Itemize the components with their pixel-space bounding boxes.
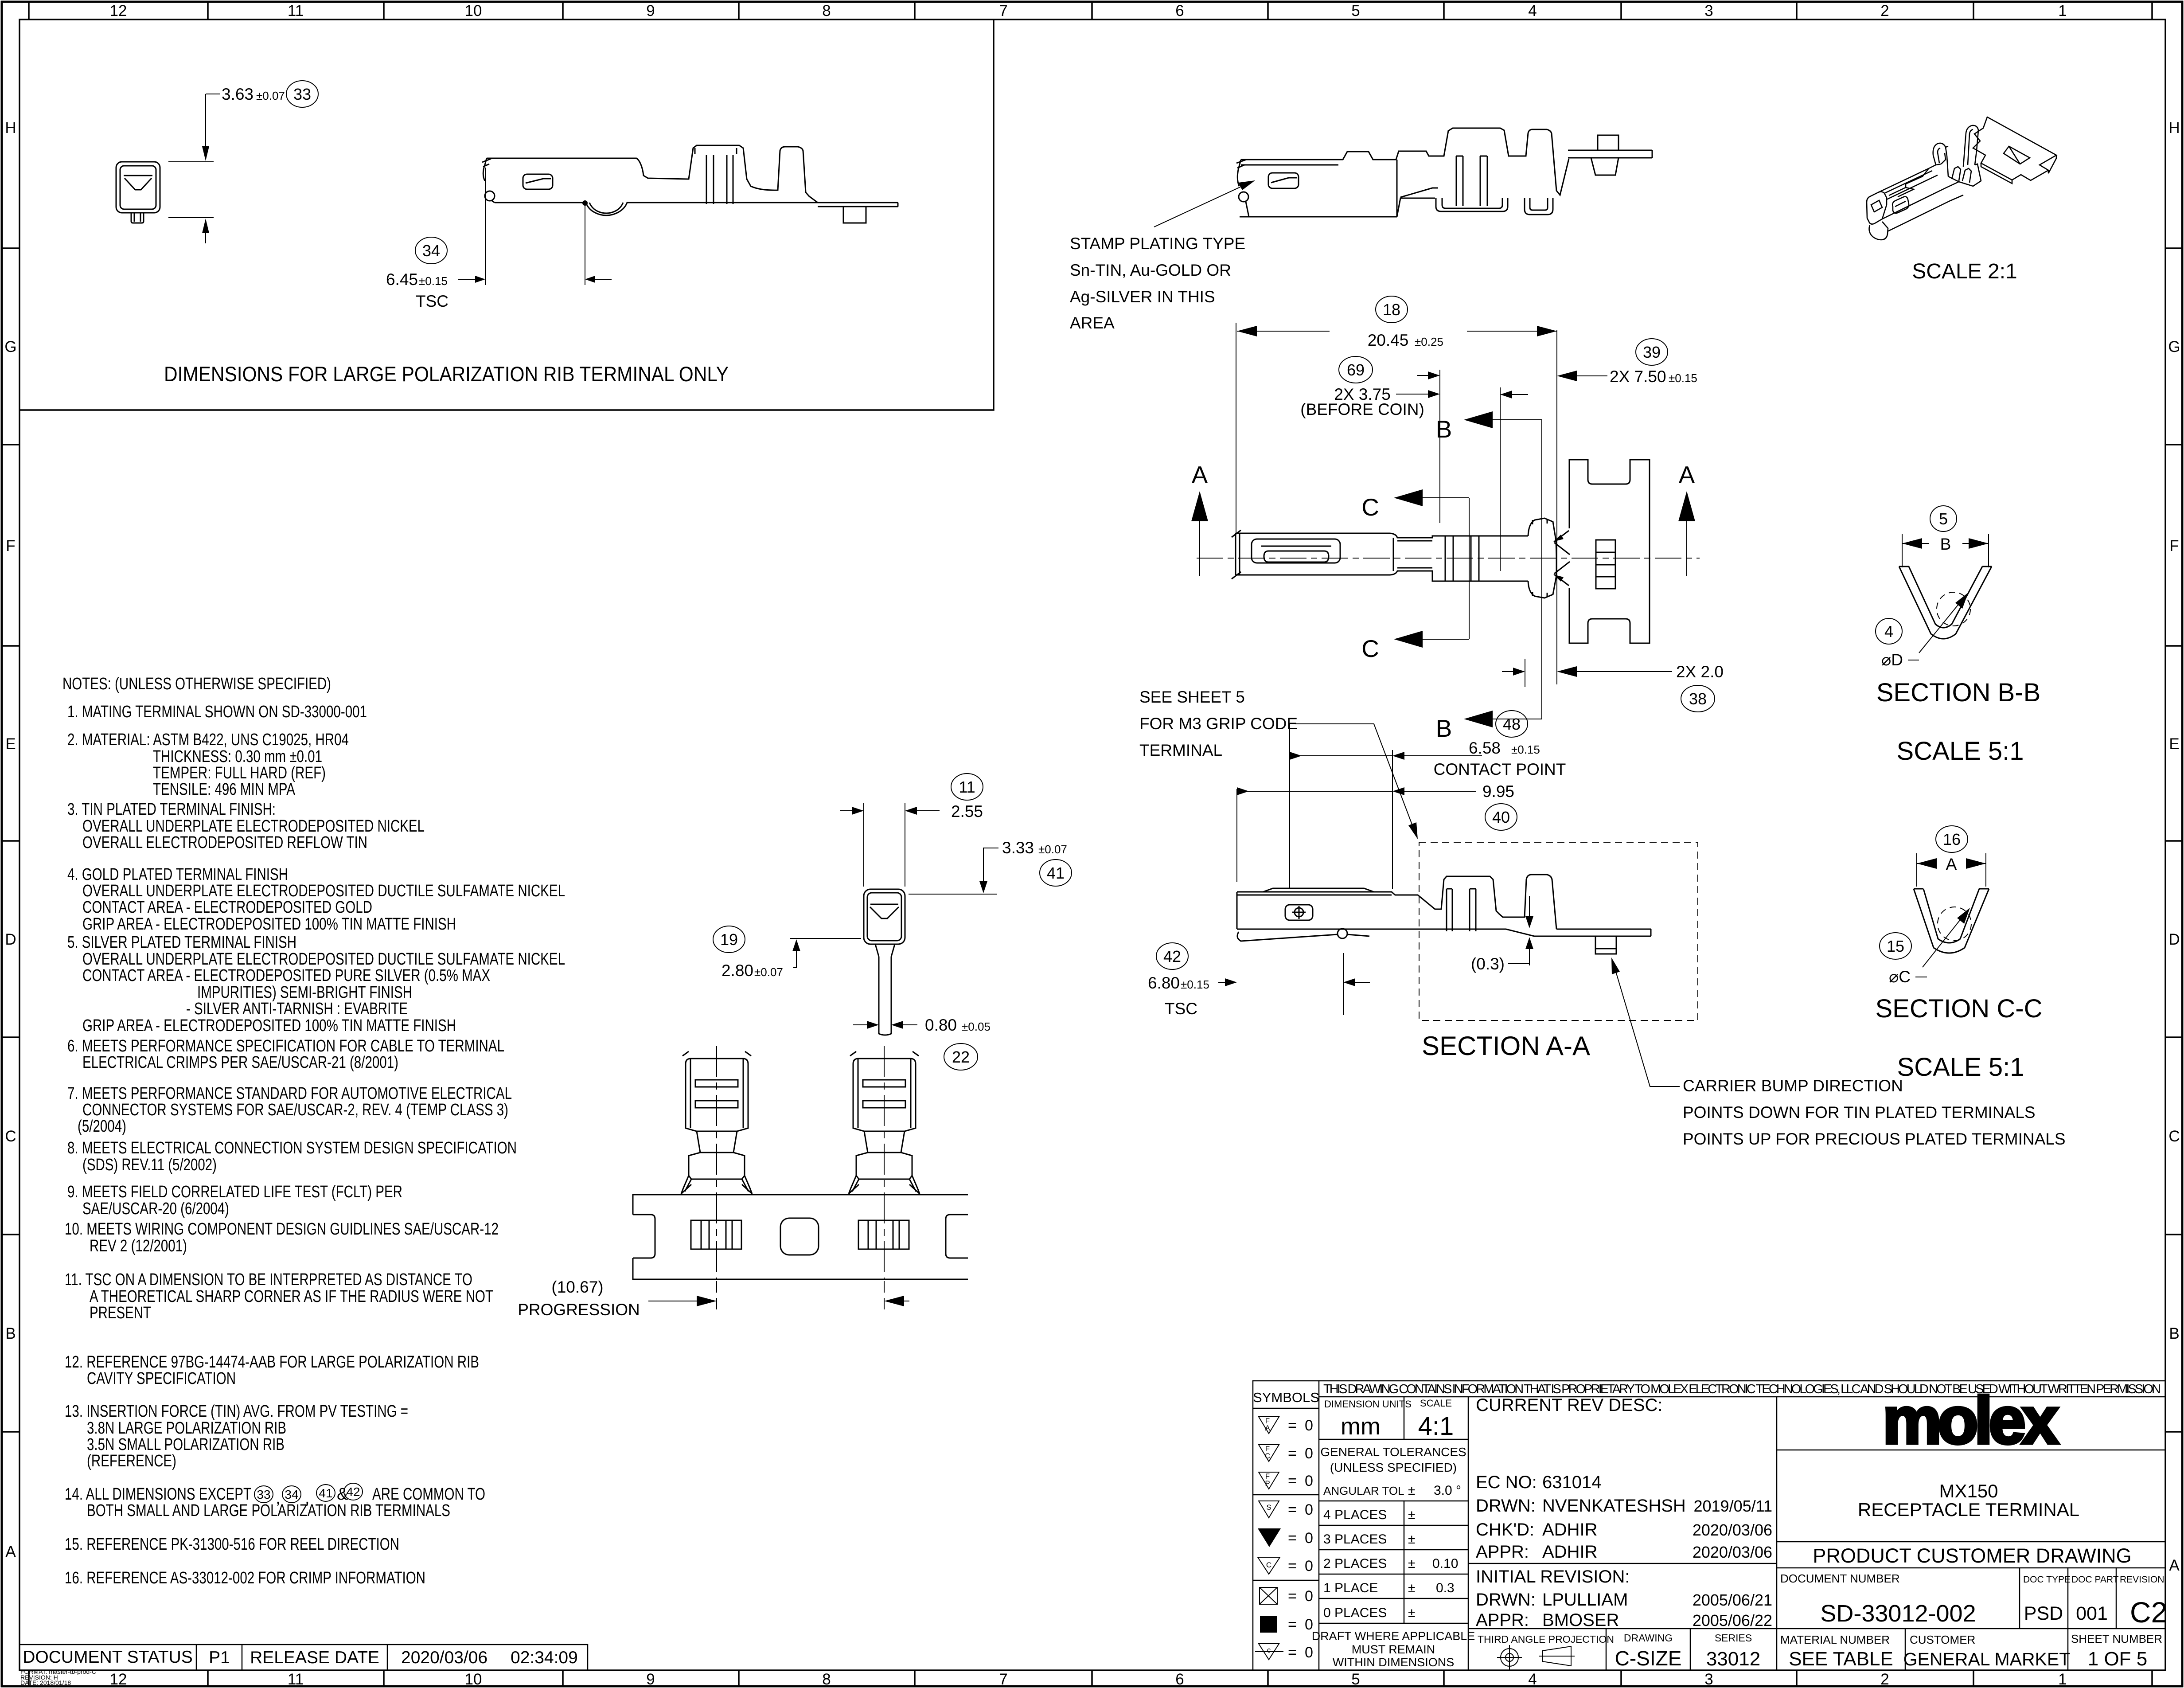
svg-text:13. INSERTION FORCE (TIN) AVG.: 13. INSERTION FORCE (TIN) AVG. FROM PV T… bbox=[65, 1402, 408, 1421]
svg-text:±0.07: ±0.07 bbox=[256, 89, 285, 102]
svg-text:10. MEETS WIRING COMPONENT DES: 10. MEETS WIRING COMPONENT DESIGN GUIDLI… bbox=[65, 1220, 499, 1239]
svg-text:THICKNESS: 0.30 mm ±0.01: THICKNESS: 0.30 mm ±0.01 bbox=[153, 747, 322, 766]
dim 6.80 TSC (42) bbox=[1218, 953, 1370, 1015]
svg-text:G: G bbox=[4, 338, 16, 356]
svg-text:16. REFERENCE AS-33012-002 FOR: 16. REFERENCE AS-33012-002 FOR CRIMP INF… bbox=[65, 1569, 425, 1587]
V shape C-C bbox=[1914, 889, 1989, 953]
svg-text:±: ± bbox=[1408, 1581, 1415, 1595]
svg-text:5. SILVER PLATED TERMINAL FINI: 5. SILVER PLATED TERMINAL FINISH bbox=[67, 933, 296, 952]
svg-text:2.55: 2.55 bbox=[951, 802, 983, 821]
svg-text:48: 48 bbox=[1503, 715, 1521, 733]
box frame bbox=[19, 20, 994, 410]
dim 3.63 +-0.07 (33) bbox=[168, 94, 220, 243]
terminal front view (large polarization rib) bbox=[116, 162, 160, 223]
center column bbox=[1476, 1395, 1772, 1630]
svg-text:=: = bbox=[1288, 1558, 1297, 1575]
svg-text:POINTS UP FOR PRECIOUS PLATED: POINTS UP FOR PRECIOUS PLATED TERMINALS bbox=[1683, 1130, 2066, 1148]
svg-text:±0.15: ±0.15 bbox=[1511, 743, 1540, 756]
svg-text:PRESENT: PRESENT bbox=[90, 1304, 151, 1322]
svg-text:c: c bbox=[1267, 1646, 1271, 1654]
svg-text:⌀C: ⌀C bbox=[1889, 968, 1911, 986]
svg-text:D: D bbox=[2168, 931, 2180, 948]
document number row bbox=[1780, 1572, 2164, 1585]
svg-text:=: = bbox=[1288, 1588, 1297, 1605]
svg-text:SEE SHEET 5: SEE SHEET 5 bbox=[1139, 688, 1245, 706]
svg-text:REVISION: REVISION bbox=[2120, 1575, 2164, 1585]
svg-text:DOC PART: DOC PART bbox=[2071, 1575, 2119, 1585]
svg-text:CONTACT POINT: CONTACT POINT bbox=[1434, 760, 1566, 778]
svg-text:3.33: 3.33 bbox=[1002, 839, 1034, 857]
svg-text:±: ± bbox=[1408, 1483, 1415, 1498]
svg-text:2X 7.50: 2X 7.50 bbox=[1610, 367, 1666, 386]
svg-text:10: 10 bbox=[465, 1671, 482, 1688]
svg-text:A: A bbox=[1679, 461, 1695, 488]
bottom zone numbers bbox=[110, 1671, 2067, 1688]
svg-text:mm: mm bbox=[1341, 1413, 1381, 1440]
svg-text:molex: molex bbox=[1883, 1383, 2059, 1457]
svg-text:SCALE: SCALE bbox=[1420, 1398, 1452, 1409]
section B bbox=[1493, 420, 1542, 719]
svg-text:41: 41 bbox=[1047, 864, 1065, 882]
format small print bbox=[20, 1668, 96, 1686]
svg-text:SCALE 5:1: SCALE 5:1 bbox=[1897, 737, 2024, 766]
svg-text:F: F bbox=[6, 537, 15, 555]
svg-text:7: 7 bbox=[999, 2, 1007, 20]
svg-text:2: 2 bbox=[1880, 1671, 1889, 1688]
svg-text:2 PLACES: 2 PLACES bbox=[1323, 1556, 1387, 1571]
svg-text:WITHIN DIMENSIONS: WITHIN DIMENSIONS bbox=[1333, 1656, 1455, 1669]
svg-text:12. REFERENCE 97BG-14474-AAB F: 12. REFERENCE 97BG-14474-AAB FOR LARGE P… bbox=[65, 1353, 479, 1371]
balloon 33 bbox=[286, 81, 318, 107]
svg-text:F: F bbox=[2169, 537, 2179, 555]
tower slots bbox=[1456, 156, 1487, 206]
svg-text:C: C bbox=[5, 1128, 16, 1145]
svg-text:3. TIN PLATED TERMINAL FINISH:: 3. TIN PLATED TERMINAL FINISH: bbox=[67, 800, 276, 819]
stamp plating text bbox=[1070, 234, 1245, 332]
svg-text:OVERALL UNDERPLATE ELECTRODEPO: OVERALL UNDERPLATE ELECTRODEPOSITED NICK… bbox=[82, 817, 425, 836]
svg-text:(10.67): (10.67) bbox=[551, 1278, 603, 1296]
svg-text:10: 10 bbox=[465, 2, 482, 20]
svg-text:=: = bbox=[1288, 1473, 1297, 1489]
centerlines bbox=[717, 1046, 884, 1279]
svg-text:±: ± bbox=[1408, 1532, 1415, 1547]
svg-text:=: = bbox=[1288, 1616, 1297, 1633]
svg-text:(SDS) REV.11 (5/2002): (SDS) REV.11 (5/2002) bbox=[82, 1156, 217, 1174]
svg-text:ELECTRICAL CRIMPS PER SAE/USCA: ELECTRICAL CRIMPS PER SAE/USCAR-21 (8/20… bbox=[82, 1053, 398, 1072]
svg-text:C: C bbox=[1265, 1452, 1270, 1460]
svg-text:(5/2004): (5/2004) bbox=[78, 1117, 126, 1136]
svg-text:1. MATING TERMINAL SHOWN ON SD: 1. MATING TERMINAL SHOWN ON SD-33000-001 bbox=[67, 703, 367, 721]
dim 6.45 TSC (34) bbox=[458, 168, 612, 285]
svg-text:34: 34 bbox=[285, 1488, 298, 1501]
svg-text:22: 22 bbox=[952, 1048, 970, 1066]
svg-text:ADHIR: ADHIR bbox=[1542, 1520, 1597, 1540]
svg-text:14. ALL DIMENSIONS EXCEPT: 14. ALL DIMENSIONS EXCEPT bbox=[65, 1485, 251, 1504]
svg-text:SECTION A-A: SECTION A-A bbox=[1422, 1031, 1590, 1061]
svg-text:6.80: 6.80 bbox=[1148, 974, 1180, 992]
svg-text:±0.15: ±0.15 bbox=[419, 274, 448, 288]
svg-text:3.63: 3.63 bbox=[222, 85, 253, 103]
svg-text:MATERIAL NUMBER: MATERIAL NUMBER bbox=[1780, 1633, 1890, 1646]
svg-text:34: 34 bbox=[422, 242, 440, 260]
svg-text:DIMENSION UNITS: DIMENSION UNITS bbox=[1324, 1399, 1412, 1410]
svg-text:8: 8 bbox=[822, 2, 831, 20]
svg-text:0: 0 bbox=[1305, 1558, 1313, 1575]
svg-text:(BEFORE COIN): (BEFORE COIN) bbox=[1300, 400, 1424, 418]
svg-text:C: C bbox=[1361, 493, 1379, 521]
isometric terminal bbox=[1867, 117, 2056, 240]
svg-text:6: 6 bbox=[1175, 1671, 1184, 1688]
svg-text:±: ± bbox=[1408, 1508, 1415, 1522]
svg-text:3: 3 bbox=[1704, 1671, 1713, 1688]
FRONT CROSS SECTION VIEW bbox=[713, 774, 1072, 1070]
section C-C view bbox=[1917, 853, 1986, 887]
svg-text:7. MEETS PERFORMANCE STANDARD: 7. MEETS PERFORMANCE STANDARD FOR AUTOMO… bbox=[67, 1084, 512, 1103]
svg-text:33: 33 bbox=[293, 85, 311, 103]
svg-text:41: 41 bbox=[319, 1486, 332, 1500]
material/customer/sheet row bbox=[1780, 1632, 2162, 1646]
svg-text:ANGULAR TOL: ANGULAR TOL bbox=[1323, 1484, 1404, 1497]
svg-text:H: H bbox=[2168, 119, 2180, 137]
svg-text:9.95: 9.95 bbox=[1482, 782, 1514, 801]
svg-text:C: C bbox=[1266, 1561, 1271, 1569]
svg-text:STAMP PLATING TYPE: STAMP PLATING TYPE bbox=[1070, 234, 1245, 253]
svg-text:A THEORETICAL SHARP CORNER AS: A THEORETICAL SHARP CORNER AS IF THE RAD… bbox=[90, 1287, 493, 1306]
svg-text:DIMENSIONS FOR LARGE POLARIZAT: DIMENSIONS FOR LARGE POLARIZATION RIB TE… bbox=[164, 362, 729, 386]
svg-text:APPR:: APPR: bbox=[1476, 1610, 1529, 1630]
ISOMETRIC VIEW bbox=[1867, 117, 2056, 283]
dim 2.55 (11) bbox=[840, 803, 940, 887]
svg-text:TENSILE: 496 MIN MPA: TENSILE: 496 MIN MPA bbox=[153, 780, 296, 799]
svg-text:DRWN:: DRWN: bbox=[1476, 1496, 1536, 1516]
progression dim bbox=[648, 1301, 711, 1301]
svg-text:DRAFT WHERE APPLICABLE: DRAFT WHERE APPLICABLE bbox=[1312, 1629, 1475, 1643]
TOP VIEW bbox=[1191, 296, 1724, 742]
svg-text:B: B bbox=[1940, 535, 1951, 553]
svg-text:2020/03/06: 2020/03/06 bbox=[1693, 1543, 1772, 1561]
svg-text:1 PLACE: 1 PLACE bbox=[1323, 1581, 1378, 1595]
top zone numbers bbox=[110, 2, 2067, 20]
svg-text:(UNLESS SPECIFIED): (UNLESS SPECIFIED) bbox=[1330, 1461, 1457, 1474]
svg-text:SHEET NUMBER: SHEET NUMBER bbox=[2071, 1632, 2162, 1645]
carrier bump below bbox=[1595, 936, 1616, 954]
(0.3) dim bbox=[1508, 896, 1529, 965]
svg-text:APPR:: APPR: bbox=[1476, 1542, 1529, 1562]
svg-text:3.0 °: 3.0 ° bbox=[1434, 1483, 1461, 1498]
svg-text:CONNECTOR SYSTEMS FOR SAE/USCA: CONNECTOR SYSTEMS FOR SAE/USCAR-2, REV. … bbox=[82, 1101, 508, 1119]
svg-text:CHK'D:: CHK'D: bbox=[1476, 1520, 1534, 1540]
svg-text:±: ± bbox=[1408, 1606, 1415, 1620]
stamp plating leader bbox=[1154, 182, 1251, 227]
svg-text:39: 39 bbox=[1643, 343, 1661, 361]
svg-text:0: 0 bbox=[1305, 1473, 1313, 1489]
svg-text:B: B bbox=[1436, 415, 1452, 443]
svg-text:INITIAL REVISION:: INITIAL REVISION: bbox=[1476, 1567, 1630, 1586]
svg-text:0: 0 bbox=[1305, 1417, 1313, 1434]
svg-text:1: 1 bbox=[2058, 1671, 2067, 1688]
terminal side view outline bbox=[1236, 128, 1652, 217]
svg-text:- SILVER ANTI-TARNISH : EVA: - SILVER ANTI-TARNISH : EVABRITE bbox=[186, 1000, 408, 1018]
svg-text:±0.07: ±0.07 bbox=[754, 965, 783, 979]
dim 3.33 (41) bbox=[909, 848, 998, 894]
svg-text:3.8N LARGE POLARIZATION RIB: 3.8N LARGE POLARIZATION RIB bbox=[87, 1419, 286, 1438]
svg-text:±0.15: ±0.15 bbox=[1181, 978, 1209, 991]
svg-text:11: 11 bbox=[959, 778, 975, 796]
svg-text:Ag-SILVER IN THIS: Ag-SILVER IN THIS bbox=[1070, 288, 1215, 306]
svg-text:0: 0 bbox=[1305, 1644, 1313, 1661]
inline balloons in note 14 bbox=[254, 1483, 363, 1503]
svg-text:DOCUMENT NUMBER: DOCUMENT NUMBER bbox=[1780, 1572, 1900, 1585]
NOTES bbox=[62, 675, 565, 1587]
svg-text:SAE/USCAR-20 (6/2004): SAE/USCAR-20 (6/2004) bbox=[82, 1200, 229, 1218]
svg-text:1: 1 bbox=[2058, 2, 2067, 20]
svg-text:11: 11 bbox=[288, 1671, 304, 1688]
svg-text:4. GOLD PLATED TERMINAL FINISH: 4. GOLD PLATED TERMINAL FINISH bbox=[67, 865, 288, 884]
carrier strip with notches bbox=[1569, 460, 1650, 643]
svg-text:G: G bbox=[2168, 338, 2180, 356]
U channel 1 bbox=[1436, 198, 1508, 211]
section A-A terminal outline bbox=[1237, 875, 1651, 954]
svg-text:MX150: MX150 bbox=[1939, 1481, 1998, 1501]
svg-text:5: 5 bbox=[1351, 2, 1360, 20]
svg-text:REV 2 (12/2001): REV 2 (12/2001) bbox=[90, 1237, 187, 1255]
svg-text:5: 5 bbox=[1939, 510, 1948, 528]
dims 6.58 / 9.95 / contact point bbox=[1237, 724, 1482, 889]
svg-text:2X 2.0: 2X 2.0 bbox=[1676, 663, 1724, 681]
carrier strip bbox=[633, 1195, 968, 1279]
svg-text:CUSTOMER: CUSTOMER bbox=[1910, 1633, 1975, 1646]
see sheet 5 note bbox=[1139, 688, 1298, 759]
MAIN SIDE VIEW bbox=[1070, 128, 1652, 332]
svg-text:2019/05/11: 2019/05/11 bbox=[1693, 1497, 1772, 1515]
svg-text:H: H bbox=[5, 119, 16, 137]
svg-text:2020/03/06: 2020/03/06 bbox=[1693, 1521, 1772, 1539]
svg-text:4: 4 bbox=[1884, 622, 1893, 641]
svg-text:C: C bbox=[2168, 1128, 2180, 1145]
svg-text:TEMPER: FULL HARD (REF): TEMPER: FULL HARD (REF) bbox=[153, 764, 326, 782]
svg-text:3: 3 bbox=[1704, 2, 1713, 20]
svg-text:GRIP AREA - ELECTRODEPOSITED 1: GRIP AREA - ELECTRODEPOSITED 100% TIN MA… bbox=[82, 1016, 456, 1035]
right zone letters bbox=[2168, 119, 2180, 1574]
svg-text:0: 0 bbox=[1305, 1588, 1313, 1605]
svg-text:⌀D: ⌀D bbox=[1881, 651, 1903, 669]
svg-text:CONTACT AREA - ELECTRODEPOSITE: CONTACT AREA - ELECTRODEPOSITED GOLD bbox=[82, 898, 372, 917]
TOP LEFT BOX: LARGE POLARIZATION RIB VIEWS bbox=[19, 20, 994, 410]
svg-text:20.45: 20.45 bbox=[1368, 331, 1409, 349]
dim 2.80 (19) bbox=[790, 938, 861, 968]
DOCUMENT STATUS BAR bbox=[19, 1645, 588, 1670]
svg-text:=: = bbox=[1288, 1644, 1297, 1661]
svg-text:CAVITY SPECIFICATION: CAVITY SPECIFICATION bbox=[87, 1369, 236, 1388]
svg-text:33012: 33012 bbox=[1706, 1648, 1760, 1670]
svg-text:0 PLACES: 0 PLACES bbox=[1323, 1606, 1387, 1620]
svg-text:0: 0 bbox=[1305, 1501, 1313, 1518]
svg-text:=: = bbox=[1288, 1417, 1297, 1434]
svg-text:C-SIZE: C-SIZE bbox=[1615, 1647, 1682, 1670]
svg-text:DRWN:: DRWN: bbox=[1476, 1590, 1536, 1610]
svg-text:±0.25: ±0.25 bbox=[1415, 335, 1443, 348]
svg-text:15: 15 bbox=[1887, 937, 1904, 955]
svg-text:6.58: 6.58 bbox=[1469, 739, 1501, 757]
svg-text:SECTION C-C: SECTION C-C bbox=[1876, 994, 2043, 1023]
svg-text:SEE TABLE: SEE TABLE bbox=[1789, 1648, 1893, 1670]
TITLE BLOCK bbox=[1253, 1381, 2167, 1670]
svg-text:DOCUMENT STATUS: DOCUMENT STATUS bbox=[23, 1648, 193, 1667]
svg-text:8. MEETS ELECTRICAL CONNECTION: 8. MEETS ELECTRICAL CONNECTION SYSTEM DE… bbox=[67, 1139, 517, 1157]
svg-text:NVENKATESHSH: NVENKATESHSH bbox=[1542, 1496, 1686, 1516]
dim 20.45 (18) bbox=[1236, 323, 1557, 684]
frame lines bbox=[1253, 1381, 2165, 1670]
svg-text:S: S bbox=[1266, 1503, 1271, 1512]
svg-text:12: 12 bbox=[110, 2, 127, 20]
svg-text:0.10: 0.10 bbox=[1432, 1556, 1458, 1571]
svg-text:P1: P1 bbox=[209, 1648, 230, 1667]
svg-text:ADHIR: ADHIR bbox=[1542, 1542, 1597, 1562]
svg-text:A: A bbox=[1265, 1424, 1270, 1432]
svg-text:0.3: 0.3 bbox=[1436, 1581, 1455, 1595]
dim 0.80 (22) bbox=[853, 1024, 917, 1025]
svg-text:±: ± bbox=[1408, 1556, 1415, 1571]
svg-text:A: A bbox=[5, 1543, 16, 1560]
V shape B-B bbox=[1899, 567, 1992, 639]
svg-text:6: 6 bbox=[1175, 2, 1184, 20]
tolerances bbox=[1320, 1445, 1466, 1620]
svg-text:DOC TYPE: DOC TYPE bbox=[2023, 1575, 2071, 1585]
svg-text:ARE COMMON TO: ARE COMMON TO bbox=[372, 1485, 485, 1504]
svg-text:CURRENT REV DESC:: CURRENT REV DESC: bbox=[1476, 1395, 1663, 1415]
svg-text:19: 19 bbox=[720, 930, 738, 949]
dim 2X 7.50 (39) bbox=[1562, 375, 1607, 376]
svg-text:C2: C2 bbox=[2130, 1596, 2167, 1629]
svg-text:SYMBOLS: SYMBOLS bbox=[1253, 1390, 1319, 1405]
SECTION A-A bbox=[1139, 688, 2066, 1148]
svg-text:2020/03/06: 2020/03/06 bbox=[401, 1648, 487, 1667]
svg-text:RELEASE DATE: RELEASE DATE bbox=[250, 1648, 379, 1667]
svg-text:EC NO:: EC NO: bbox=[1476, 1473, 1537, 1492]
svg-text:02:34:09: 02:34:09 bbox=[511, 1648, 578, 1667]
svg-text:OVERALL ELECTRODEPOSITED REFLO: OVERALL ELECTRODEPOSITED REFLOW TIN bbox=[82, 833, 367, 852]
svg-text:2. MATERIAL: ASTM B422, UNS C1: 2. MATERIAL: ASTM B422, UNS C19025, HR04 bbox=[67, 731, 349, 749]
section A arrows bbox=[1200, 519, 1687, 576]
section B-B view bbox=[1902, 534, 1989, 567]
svg-text:D: D bbox=[5, 931, 16, 948]
svg-text:631014: 631014 bbox=[1542, 1473, 1601, 1492]
svg-text:18: 18 bbox=[1383, 301, 1400, 319]
svg-text:4:1: 4:1 bbox=[1418, 1412, 1454, 1441]
svg-text:6.45: 6.45 bbox=[386, 270, 418, 289]
svg-text:33: 33 bbox=[257, 1488, 270, 1501]
svg-text:±0.07: ±0.07 bbox=[1038, 843, 1067, 856]
svg-text:38: 38 bbox=[1689, 690, 1707, 708]
svg-text:12: 12 bbox=[110, 1671, 127, 1688]
svg-text:2.80: 2.80 bbox=[721, 961, 753, 980]
dim 2X 2.0 (38) bbox=[1502, 659, 1672, 687]
svg-text:OVERALL UNDERPLATE ELECTRODEPO: OVERALL UNDERPLATE ELECTRODEPOSITED DUCT… bbox=[82, 882, 565, 900]
svg-text:GENERAL TOLERANCES: GENERAL TOLERANCES bbox=[1320, 1445, 1466, 1459]
svg-text:SCALE 5:1: SCALE 5:1 bbox=[1897, 1053, 2024, 1082]
svg-text:CONTACT AREA - ELECTRODEPOSITE: CONTACT AREA - ELECTRODEPOSITED PURE SIL… bbox=[82, 966, 490, 985]
svg-text:9. MEETS FIELD CORRELATED LIFE: 9. MEETS FIELD CORRELATED LIFE TEST (FCL… bbox=[67, 1183, 402, 1201]
svg-text:A: A bbox=[1946, 855, 1957, 873]
PROGRESSION VIEW bbox=[518, 1046, 968, 1319]
svg-text:16: 16 bbox=[1943, 830, 1961, 848]
svg-text:DATE: 2018/01/18: DATE: 2018/01/18 bbox=[20, 1679, 71, 1686]
svg-text:TSC: TSC bbox=[1165, 1000, 1197, 1018]
svg-text:B: B bbox=[2169, 1325, 2179, 1342]
svg-text:001: 001 bbox=[2076, 1603, 2108, 1624]
svg-text:11: 11 bbox=[288, 2, 304, 20]
svg-text:2: 2 bbox=[1880, 2, 1889, 20]
top view terminal outline bbox=[1232, 460, 1650, 643]
svg-text:9: 9 bbox=[646, 2, 655, 20]
svg-text:5: 5 bbox=[1351, 1671, 1360, 1688]
svg-text:PROGRESSION: PROGRESSION bbox=[518, 1301, 640, 1319]
svg-text:SERIES: SERIES bbox=[1715, 1632, 1752, 1644]
svg-text:0: 0 bbox=[1305, 1530, 1313, 1547]
svg-text:A: A bbox=[2169, 1557, 2180, 1574]
svg-text:=: = bbox=[1288, 1445, 1297, 1462]
dim 2X 3.75 (69) BEFORE COIN bbox=[1396, 370, 1528, 571]
svg-text:GRIP AREA - ELECTRODEPOSITED 1: GRIP AREA - ELECTRODEPOSITED 100% TIN MA… bbox=[82, 915, 456, 934]
svg-text:1 OF 5: 1 OF 5 bbox=[2088, 1648, 2148, 1670]
svg-text:=: = bbox=[1288, 1530, 1297, 1547]
svg-text:E: E bbox=[5, 735, 16, 753]
svg-text:(0.3): (0.3) bbox=[1471, 955, 1505, 973]
svg-text:LPULLIAM: LPULLIAM bbox=[1542, 1590, 1628, 1610]
SECTION B-B and C-C bbox=[1876, 506, 2043, 1082]
svg-text:THIRD ANGLE PROJECTION: THIRD ANGLE PROJECTION bbox=[1478, 1633, 1614, 1645]
terminal side view in box bbox=[482, 145, 898, 223]
svg-text:TSC: TSC bbox=[416, 292, 448, 310]
section C bbox=[1423, 498, 1469, 639]
svg-text:SCALE 2:1: SCALE 2:1 bbox=[1912, 260, 2017, 283]
svg-text:0: 0 bbox=[1305, 1445, 1313, 1462]
svg-text:(REFERENCE): (REFERENCE) bbox=[87, 1452, 176, 1470]
svg-text:A: A bbox=[1192, 461, 1208, 488]
svg-text:9: 9 bbox=[646, 1671, 655, 1688]
svg-text:SECTION B-B: SECTION B-B bbox=[1876, 678, 2041, 707]
svg-text:RECEPTACLE TERMINAL: RECEPTACLE TERMINAL bbox=[1858, 1499, 2079, 1520]
svg-text:4: 4 bbox=[1528, 1671, 1537, 1688]
svg-text:E: E bbox=[2169, 735, 2179, 753]
svg-text:BOTH SMALL AND LARGE POLARIZAT: BOTH SMALL AND LARGE POLARIZATION RIB TE… bbox=[87, 1501, 450, 1520]
svg-text:PRODUCT CUSTOMER DRAWING: PRODUCT CUSTOMER DRAWING bbox=[1813, 1544, 2131, 1567]
svg-text:3.5N SMALL POLARIZATION RIB: 3.5N SMALL POLARIZATION RIB bbox=[87, 1435, 285, 1454]
centerline bbox=[1197, 558, 1700, 559]
svg-text:C: C bbox=[1361, 635, 1379, 662]
svg-text:B: B bbox=[5, 1325, 16, 1342]
svg-text:±0.15: ±0.15 bbox=[1669, 371, 1697, 385]
U channel 2 bbox=[1525, 198, 1553, 215]
svg-text:BMOSER: BMOSER bbox=[1542, 1610, 1619, 1630]
svg-text:4 PLACES: 4 PLACES bbox=[1323, 1508, 1387, 1522]
svg-text:7: 7 bbox=[999, 1671, 1007, 1688]
svg-text:=: = bbox=[1288, 1501, 1297, 1518]
svg-text:6. MEETS PERFORMANCE SPECIFICA: 6. MEETS PERFORMANCE SPECIFICATION FOR C… bbox=[67, 1037, 504, 1055]
svg-text:OVERALL UNDERPLATE ELECTRODEPO: OVERALL UNDERPLATE ELECTRODEPOSITED DUCT… bbox=[82, 950, 565, 969]
svg-text:42: 42 bbox=[1163, 947, 1181, 965]
svg-text:NOTES: (UNLESS OTHERWISE SPECI: NOTES: (UNLESS OTHERWISE SPECIFIED) bbox=[62, 675, 331, 693]
dashed detail box bbox=[1419, 842, 1698, 1020]
svg-text:2005/06/22: 2005/06/22 bbox=[1693, 1611, 1772, 1629]
svg-text:40: 40 bbox=[1492, 808, 1510, 826]
svg-text:POINTS DOWN FOR TIN PLATED TER: POINTS DOWN FOR TIN PLATED TERMINALS bbox=[1683, 1103, 2036, 1121]
carrier bump leader and note bbox=[1613, 963, 1680, 1086]
svg-text:PSD: PSD bbox=[2024, 1603, 2063, 1624]
svg-text:Sn-TIN, Au-GOLD OR: Sn-TIN, Au-GOLD OR bbox=[1070, 261, 1231, 279]
svg-text:11. TSC ON A DIMENSION TO BE I: 11. TSC ON A DIMENSION TO BE INTERPRETED… bbox=[65, 1270, 472, 1289]
svg-text:MUST REMAIN: MUST REMAIN bbox=[1352, 1643, 1435, 1656]
